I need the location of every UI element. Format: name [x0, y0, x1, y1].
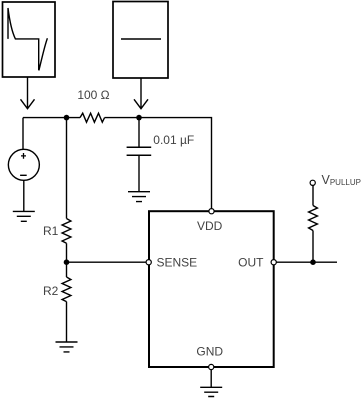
surge waveform trace [8, 8, 47, 70]
ground capacitor [128, 192, 150, 202]
wire pullup resistor to terminal [312, 185, 314, 205]
svg-text:GND: GND [196, 345, 223, 359]
capacitor C1 [127, 147, 152, 155]
svg-text:VDD: VDD [197, 219, 223, 233]
pin SENSE [146, 260, 151, 265]
wire rail to source [22, 118, 24, 150]
junction node A [64, 115, 70, 121]
resistor R2 [62, 277, 71, 302]
pin GND [209, 364, 214, 369]
arrow from surge box [21, 77, 35, 109]
wire cap node to capacitor [138, 118, 140, 148]
surge source box [3, 2, 56, 77]
wire top rail left [23, 117, 80, 119]
ground R2 [56, 342, 78, 352]
wire R2 to ground [66, 302, 68, 342]
svg-text:R2: R2 [43, 284, 59, 298]
pin OUT [271, 260, 276, 265]
svg-text:VPULLUP: VPULLUP [322, 173, 361, 187]
wire GND pin to ground [210, 370, 212, 388]
resistor pullup [309, 206, 318, 231]
voltage source V1 [8, 149, 39, 180]
flat source box [113, 2, 168, 79]
wire sense node to R2 [66, 262, 68, 277]
wire R1 to sense node [66, 243, 68, 262]
pin VDD [209, 209, 214, 214]
wire sense node to SENSE pin [67, 261, 147, 263]
ground source [13, 211, 35, 221]
ground IC [200, 387, 222, 396]
wire source to ground [23, 180, 25, 211]
resistor 100 ohm [80, 113, 105, 122]
junction sense node [64, 259, 70, 265]
arrow from flat box [134, 78, 148, 109]
wire capacitor to ground [138, 155, 140, 192]
IC U1 body [149, 211, 274, 367]
plus sign [21, 153, 26, 159]
svg-text:0.01 µF: 0.01 µF [153, 133, 194, 147]
junction cap node [136, 115, 142, 121]
svg-text:R1: R1 [43, 224, 59, 238]
wire node A to R1 [66, 118, 68, 219]
minus sign [20, 174, 27, 176]
svg-text:SENSE: SENSE [157, 256, 198, 270]
resistor R1 [62, 219, 71, 244]
terminal V_PULLUP [310, 180, 315, 185]
wire OUT to stub [276, 261, 337, 263]
wire top rail right to VDD [105, 118, 212, 209]
svg-text:OUT: OUT [238, 256, 264, 270]
junction out node [310, 259, 316, 265]
svg-text:100 Ω: 100 Ω [77, 88, 109, 102]
wire out node to pullup resistor [312, 231, 314, 263]
flat waveform trace [121, 38, 161, 40]
